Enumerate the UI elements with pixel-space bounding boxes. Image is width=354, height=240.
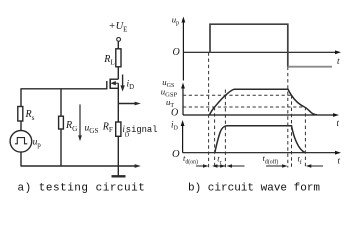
svg-text:O: O — [173, 47, 180, 58]
wire: RG branch — [60, 89, 62, 116]
wire: RG branch lower — [60, 129, 62, 166]
svg-text:b) circuit wave form: b) circuit wave form — [188, 183, 320, 195]
dashed timing line t2 — [214, 107, 216, 168]
waveform uGS curve — [209, 89, 317, 115]
axis 1 vertical — [182, 19, 184, 52]
dimension tf — [308, 165, 323, 167]
supply terminal circle — [117, 38, 121, 42]
dashed timing line t3 — [224, 90, 226, 168]
wire: left branch upper — [20, 89, 22, 107]
uGS arrow — [79, 104, 81, 138]
svg-text:t: t — [337, 56, 340, 66]
resistor RG — [59, 116, 64, 129]
svg-text:iD: iD — [127, 80, 135, 92]
transistor VT channel bar — [109, 79, 111, 89]
wire: ground stub — [117, 166, 119, 176]
transistor VT drain stub — [110, 78, 118, 80]
axis 2 vertical — [182, 85, 184, 115]
svg-text:Rs: Rs — [25, 109, 35, 122]
svg-text:signal: signal — [126, 125, 158, 135]
svg-text:td(on): td(on) — [183, 153, 198, 166]
bottom rail arrowhead — [135, 164, 141, 168]
svg-text:O: O — [172, 149, 180, 160]
svg-text:tr: tr — [217, 153, 221, 166]
ground bar — [112, 175, 126, 177]
transistor VT gate bar — [106, 81, 108, 89]
pulse waveform up — [210, 24, 288, 66]
transistor VT body arrow — [114, 82, 119, 84]
dashed timing line t4 — [287, 67, 289, 168]
dashed timing line t6 — [304, 107, 306, 168]
pulse negative segment — [288, 66, 332, 68]
svg-text:uGS: uGS — [85, 124, 99, 136]
wire: supply to RL — [117, 41, 119, 48]
axis 2 horizontal — [183, 114, 336, 116]
resistor Rs — [18, 107, 23, 122]
svg-text:up: up — [33, 138, 42, 150]
svg-text:t: t — [337, 118, 340, 128]
source ug circle — [10, 131, 32, 153]
wire: RL to drain — [117, 67, 119, 79]
transistor VT source stub — [110, 87, 118, 89]
resistor RL — [116, 49, 121, 67]
axis 3 vertical — [182, 123, 184, 153]
svg-text:RF: RF — [102, 121, 113, 134]
dimension tr — [214, 165, 227, 167]
dashed level uT — [183, 106, 305, 108]
dashed timing line t1 — [208, 52, 210, 167]
dimension tail right of tr — [229, 165, 245, 167]
svg-text:RG: RG — [65, 120, 77, 133]
dashed level uGSP — [183, 94, 292, 96]
wire: top gate wire — [21, 88, 107, 90]
wire: left branch mid — [20, 121, 22, 131]
wire: upper tap across RF — [118, 103, 137, 105]
svg-text:up: up — [172, 14, 179, 26]
dimension td(on) — [196, 165, 206, 167]
axis 3 horizontal — [183, 152, 338, 154]
wire: source down — [117, 83, 119, 166]
current iD arrow — [122, 75, 124, 89]
wire: bottom rail — [21, 165, 138, 167]
svg-text:td(off): td(off) — [263, 153, 279, 166]
pulse glyph inside source — [15, 138, 27, 144]
svg-text:a) testing circuit: a) testing circuit — [18, 183, 146, 195]
svg-text:tf: tf — [298, 154, 302, 167]
wire: left branch lower — [20, 152, 22, 166]
axis 1 vertical extension below origin — [182, 52, 184, 80]
dimension td(off) — [266, 165, 285, 167]
svg-text:iD: iD — [171, 119, 179, 131]
axis 1 horizontal — [183, 51, 338, 53]
resistor RF — [116, 122, 121, 136]
svg-text:t: t — [338, 156, 341, 166]
svg-text:O: O — [171, 108, 178, 119]
dashed timing line t5 — [291, 95, 293, 167]
transistor VT body arrowhead — [110, 81, 115, 85]
waveform iD curve — [215, 126, 305, 153]
svg-text:+UE: +UE — [109, 21, 128, 34]
tap arrowhead upper — [135, 102, 141, 106]
svg-text:RL: RL — [103, 54, 115, 67]
